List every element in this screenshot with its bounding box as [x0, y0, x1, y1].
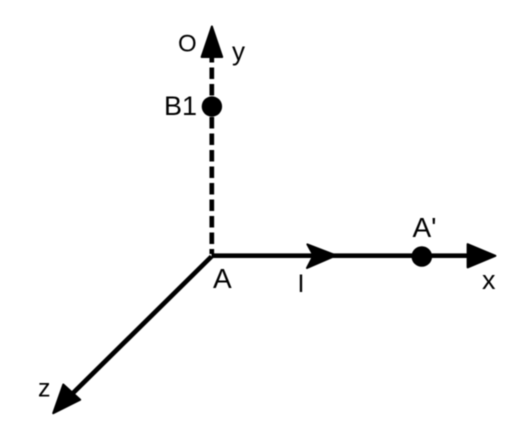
svg-text:z: z [38, 375, 51, 403]
svg-text:A': A' [413, 212, 437, 243]
svg-text:x: x [482, 265, 496, 295]
svg-text:y: y [232, 36, 245, 66]
svg-text:B1: B1 [164, 91, 197, 121]
svg-text:A: A [213, 263, 232, 294]
svg-text:O: O [178, 31, 197, 58]
svg-text:I: I [298, 270, 305, 298]
